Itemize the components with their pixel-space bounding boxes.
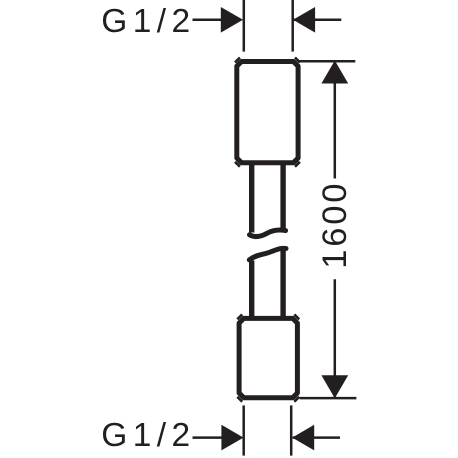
wire: top extension line right — [291, 0, 294, 52]
arrowhead top-right (points left) — [293, 7, 315, 33]
arrowhead 1600 top (points up) — [321, 61, 348, 84]
wire: top extension line left — [243, 0, 246, 52]
wire: 1600 extension line bottom — [300, 397, 357, 400]
wire: bottom extension line right — [290, 405, 293, 455]
wire: 1600 dim line lower — [334, 279, 337, 398]
svg-text:1600: 1600 — [316, 181, 354, 269]
arrowhead bottom-right (points left) — [292, 425, 314, 451]
hose tube upper segment — [249, 163, 254, 233]
arrowhead top-left (points right) — [221, 7, 243, 33]
hose nut bottom (rectangle with chamfered corners) — [239, 318, 297, 397]
wire: 1600 dim line upper — [334, 61, 337, 179]
break squiggle lower — [249, 248, 286, 259]
wire: top leader line — [193, 19, 225, 22]
wire: bottom-right tail line — [293, 436, 340, 439]
break squiggle upper — [250, 230, 286, 237]
wire: bottom leader line — [193, 436, 225, 439]
svg-text:G1/2: G1/2 — [101, 3, 195, 40]
arrowhead 1600 bottom (points down) — [321, 375, 348, 398]
chamfer marks top nut — [235, 58, 300, 167]
svg-text:G1/2: G1/2 — [101, 417, 195, 454]
wire: bottom extension line left — [242, 405, 245, 455]
arrowhead bottom-left (points right) — [221, 425, 243, 451]
wire: top-right tail line — [294, 19, 342, 22]
wire: 1600 extension line top — [299, 60, 355, 63]
chamfer marks bottom nut — [237, 314, 299, 401]
hose tube lower segment — [249, 261, 254, 318]
hose nut top (rectangle with chamfered corners) — [237, 62, 298, 163]
